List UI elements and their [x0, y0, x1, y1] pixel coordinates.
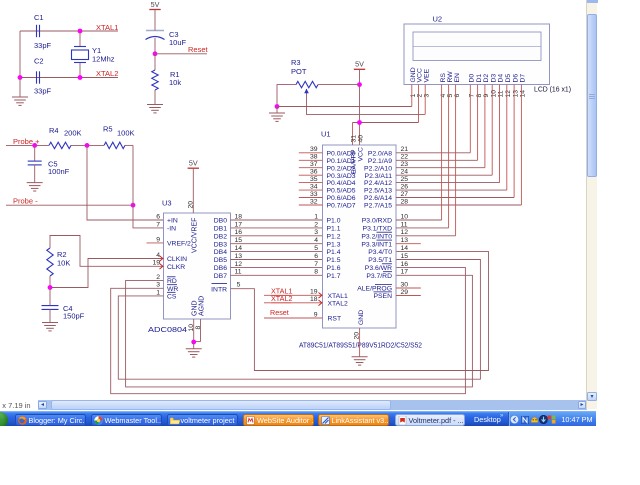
resistor R1	[152, 54, 182, 105]
capacitor C4 150pF	[42, 288, 85, 323]
wire LCD D5 riser	[506, 85, 508, 191]
net label XTAL2 at U1	[271, 294, 292, 303]
svg-text:Reset: Reset	[270, 308, 289, 317]
svg-text:DB6: DB6	[214, 265, 227, 272]
pin PSEN U1 pin 29	[373, 289, 420, 300]
pin RW U2 pin 5	[447, 71, 454, 98]
svg-text:R5: R5	[103, 125, 113, 134]
svg-text:29: 29	[401, 289, 409, 296]
svg-text:DB2: DB2	[214, 233, 227, 240]
svg-text:P3.6/WR: P3.6/WR	[365, 265, 392, 272]
wire LCD D4 riser	[499, 85, 501, 183]
svg-text:8: 8	[476, 94, 483, 98]
svg-text:P1.7: P1.7	[327, 273, 341, 280]
node +IN tap junction	[85, 143, 90, 148]
svg-text:XTAL2: XTAL2	[96, 69, 118, 78]
svg-text:12Mhz: 12Mhz	[92, 55, 115, 64]
svg-text:CLKIN: CLKIN	[167, 256, 187, 263]
system tray	[508, 412, 596, 428]
capacitor C5 100nF	[28, 145, 70, 182]
svg-text:AGND: AGND	[198, 296, 205, 316]
svg-text:10k: 10k	[169, 78, 181, 87]
svg-text:5V: 5V	[189, 159, 198, 168]
svg-text:P1.2: P1.2	[327, 233, 341, 240]
svg-text:30: 30	[401, 281, 409, 288]
wire pot right to 5V	[318, 84, 360, 86]
pin P0.1/AD1 U1 pin 38	[299, 154, 356, 165]
taskbar button voltmeter project	[167, 414, 239, 426]
svg-text:6: 6	[314, 253, 318, 260]
wire RD to P3.7 loop	[126, 275, 473, 387]
node Probe- junction	[131, 203, 136, 208]
svg-text:27: 27	[401, 191, 409, 198]
vertical scrollbar	[586, 0, 597, 409]
pin P0.7/AD7 U1 pin 32	[299, 198, 356, 209]
svg-text:P2.0/A8: P2.0/A8	[368, 150, 392, 157]
svg-text:15: 15	[235, 237, 243, 244]
svg-text:P0.6/AD6: P0.6/AD6	[327, 195, 356, 202]
svg-text:-IN: -IN	[167, 226, 176, 233]
pin P3.7/RD U1 pin 17	[366, 269, 408, 280]
resistor R4 200K	[49, 126, 82, 149]
svg-text:3: 3	[423, 94, 430, 98]
pin P3.4/T0 U1 pin 14	[368, 245, 408, 256]
wire Probe+ horizontal	[6, 144, 133, 146]
svg-text:XTAL1: XTAL1	[96, 23, 118, 32]
pin P1.7 U1	[327, 273, 341, 280]
svg-text:3: 3	[156, 282, 160, 289]
svg-text:2: 2	[156, 274, 160, 281]
capacitor C1	[34, 13, 52, 50]
wire LCD D6 riser	[513, 85, 515, 198]
pin DB7 U3 pin 11	[214, 269, 242, 280]
svg-text:EA/VPP: EA/VPP	[351, 149, 358, 174]
net label Probe -	[13, 197, 38, 206]
wire XTAL2 net horizontal	[20, 77, 118, 79]
svg-text:P3.5/T1: P3.5/T1	[368, 257, 392, 264]
power 5V for reset circuit	[149, 0, 160, 29]
taskbar clock	[559, 415, 595, 424]
net label Probe +	[13, 137, 40, 146]
svg-text:R3: R3	[291, 58, 301, 67]
pin P1.0 U1	[327, 218, 341, 225]
wire LCD GND riser	[411, 85, 413, 107]
wire DB6 to P1.6	[231, 266, 323, 268]
pin D2 U2 pin 9	[483, 74, 490, 98]
wire P3.3 stub	[396, 243, 421, 245]
pin P2.2/A10 U1 pin 23	[364, 161, 408, 172]
svg-text:21: 21	[401, 146, 409, 153]
potentiometer R3 POT	[291, 58, 318, 94]
pin P0.0/AD0 U1 pin 39	[299, 146, 356, 157]
pin P0.2/AD2 U1 pin 37	[299, 161, 356, 172]
svg-text:D6: D6	[512, 74, 519, 83]
ground for crystal caps	[12, 78, 28, 106]
wire P2.4 to LCD D4	[396, 182, 500, 184]
svg-text:5: 5	[237, 282, 241, 289]
svg-text:XTAL1: XTAL1	[328, 293, 348, 300]
svg-text:12: 12	[235, 261, 243, 268]
wire Probe- horizontal	[6, 204, 133, 206]
svg-text:33: 33	[310, 191, 318, 198]
pin DB0 U3 pin 18	[214, 213, 243, 224]
pin -IN U3 pin 7	[156, 221, 176, 232]
svg-text:18: 18	[310, 296, 318, 303]
pin +IN U3 pin 6	[156, 213, 178, 224]
pin P3.0/RXD U1 pin 10	[362, 213, 409, 224]
op-amp U3 ADC0804 body	[148, 199, 231, 335]
pin P0.5/AD5 U1 pin 34	[299, 184, 356, 195]
svg-text:VCC: VCC	[358, 147, 365, 161]
wire Reset net	[155, 53, 207, 55]
node 5V pot junction	[357, 82, 362, 87]
svg-text:3: 3	[314, 229, 318, 236]
svg-text:37: 37	[310, 161, 318, 168]
pin P1.3 U1	[327, 241, 341, 248]
pin XTAL2 U1 pin 18	[264, 296, 348, 307]
wire P2.5 to LCD D5	[396, 189, 507, 191]
pin numbers 10 and 8 ADC ground	[188, 324, 202, 332]
pin P1.6 U1	[327, 265, 341, 272]
node RC junction	[48, 276, 53, 290]
svg-text:11: 11	[401, 221, 408, 228]
svg-text:D5: D5	[505, 74, 512, 83]
svg-text:32: 32	[310, 198, 318, 205]
svg-text:200K: 200K	[64, 129, 82, 138]
node ADC ground junction	[191, 340, 196, 345]
desktop toolbar	[474, 415, 501, 424]
taskbar button LinkAssistant	[318, 414, 389, 426]
wire pot wiper to VEE	[307, 94, 426, 115]
wire P2.7 to LCD D7	[396, 204, 521, 206]
svg-text:P0.5/AD5: P0.5/AD5	[327, 188, 356, 195]
pin P2.7/A15 U1 pin 28	[364, 198, 408, 209]
pin WR U3 pin 3	[156, 282, 178, 293]
svg-text:P1.0: P1.0	[327, 218, 341, 225]
svg-text:10K: 10K	[57, 259, 70, 268]
pin DB6 U3 pin 12	[214, 261, 243, 272]
pin D1 U2 pin 8	[476, 74, 483, 98]
wire P2.1 to LCD D1	[396, 159, 478, 161]
svg-text:26: 26	[401, 184, 409, 191]
pin number 4 U1 P1.3	[314, 237, 318, 244]
svg-text:DB1: DB1	[214, 226, 227, 233]
pin GND U1 pin 20	[354, 310, 365, 357]
horizontal scrollbar	[38, 400, 587, 410]
svg-text:U1: U1	[321, 130, 331, 139]
pin number 6 U1 P1.5	[314, 253, 318, 260]
svg-text:U3: U3	[162, 199, 172, 208]
svg-text:C1: C1	[34, 13, 44, 22]
wire P2.6 to LCD D6	[396, 197, 514, 199]
wire WR to P3.6 loop	[111, 267, 466, 393]
pin P3.1/TXD U1 pin 11	[363, 221, 408, 232]
svg-text:VREF/2: VREF/2	[167, 241, 191, 248]
svg-text:7: 7	[156, 221, 160, 228]
svg-text:P1.4: P1.4	[327, 249, 341, 256]
pin number 7 U1 P1.6	[314, 261, 318, 268]
svg-text:C2: C2	[34, 57, 44, 66]
pin P3.6/WR U1 pin 16	[365, 261, 408, 272]
node XTAL2 junctions	[18, 75, 83, 80]
wire pot left to ground	[277, 85, 296, 107]
net label XTAL1 at U1	[271, 287, 292, 296]
svg-text:D7: D7	[520, 74, 527, 83]
svg-text:P0.7/AD7: P0.7/AD7	[327, 203, 356, 210]
wire DB7 to P1.7	[231, 274, 323, 276]
svg-text:40: 40	[357, 135, 364, 143]
wire XTAL1 net horizontal	[20, 30, 118, 32]
svg-text:P2.3/A11: P2.3/A11	[365, 173, 393, 180]
pin P0.6/AD6 U1 pin 33	[299, 191, 356, 202]
wire DB3 to P1.3	[231, 243, 323, 245]
net label XTAL2	[96, 69, 118, 78]
svg-text:WR: WR	[167, 286, 178, 293]
wire CLKIN to RC junction	[50, 259, 164, 288]
svg-text:38: 38	[310, 154, 318, 161]
pin RS U2 pin 4	[440, 73, 447, 98]
svg-text:R4: R4	[49, 126, 59, 135]
net label XTAL1	[96, 23, 118, 32]
svg-text:22: 22	[401, 154, 409, 161]
node VCC junction	[357, 120, 362, 125]
pin P2.5/A13 U1 pin 26	[364, 184, 408, 195]
wire LCD D2 riser	[484, 85, 486, 168]
pin number 8 U1 P1.7	[314, 269, 318, 276]
pin VCC U1 pin 40	[357, 123, 364, 162]
pin P1.2 U1	[327, 233, 341, 240]
svg-text:10: 10	[490, 90, 497, 98]
svg-text:24: 24	[401, 169, 409, 176]
svg-text:8: 8	[195, 326, 202, 330]
svg-text:39: 39	[310, 146, 318, 153]
pin INTR U3 pin 5	[211, 282, 240, 294]
svg-text:8: 8	[314, 269, 318, 276]
svg-text:P3.3/INT1: P3.3/INT1	[361, 241, 392, 248]
svg-text:1: 1	[314, 213, 318, 220]
svg-text:33pF: 33pF	[34, 41, 52, 50]
wire P3.0 to LCD RS	[396, 219, 442, 221]
svg-text:D1: D1	[476, 74, 483, 83]
svg-text:ADC0804: ADC0804	[148, 325, 187, 334]
wire P2.3 to LCD D3	[396, 174, 492, 176]
svg-text:4: 4	[156, 252, 160, 259]
wire DB2 to P1.2	[231, 235, 323, 237]
crystal Y1	[72, 31, 115, 78]
svg-text:P1.1: P1.1	[327, 226, 341, 233]
svg-text:18: 18	[235, 213, 243, 220]
wire LCD GND net	[277, 106, 412, 108]
power 5V for U1	[354, 60, 365, 123]
node reset junction	[153, 51, 158, 56]
pin XTAL1 U1 pin 19	[264, 289, 348, 300]
pin P3.3/INT1 U1 pin 13	[361, 237, 408, 248]
svg-text:DB7: DB7	[214, 273, 227, 280]
svg-text:16: 16	[401, 261, 409, 268]
svg-text:D0: D0	[469, 74, 476, 83]
svg-text:PSEN: PSEN	[373, 293, 392, 300]
svg-text:150pF: 150pF	[63, 312, 85, 321]
svg-text:+IN: +IN	[167, 218, 178, 225]
microcontroller U1 body	[299, 130, 422, 350]
pin P1.5 U1	[327, 257, 341, 264]
pin CLKR U3 pin 19	[152, 260, 185, 271]
svg-text:10: 10	[188, 324, 195, 332]
pin P2.6/A14 U1 pin 27	[364, 191, 408, 202]
svg-text:31: 31	[350, 135, 357, 143]
svg-text:RD: RD	[167, 278, 177, 285]
svg-text:33pF: 33pF	[34, 87, 52, 96]
pin GND U2 pin 1	[410, 67, 417, 97]
wire INTR to P3.4 loop	[231, 252, 489, 371]
svg-text:P1.3: P1.3	[327, 241, 341, 248]
svg-text:13: 13	[512, 90, 519, 98]
wire DB5 to P1.5	[231, 259, 323, 261]
pin D4 U2 pin 11	[498, 74, 505, 98]
svg-text:14: 14	[401, 245, 409, 252]
svg-text:10uF: 10uF	[169, 38, 187, 47]
pin number 5 U1 P1.4	[314, 245, 318, 252]
wire LCD D1 riser	[477, 85, 479, 161]
svg-text:P2.5/A13: P2.5/A13	[364, 188, 392, 195]
pin RD U3 pin 2	[156, 274, 177, 285]
svg-text:P1.5: P1.5	[327, 257, 341, 264]
pin VCC U2 pin 2	[417, 68, 424, 97]
svg-text:AT89C51/AT89S51/P89V51RD2/C52/: AT89C51/AT89S51/P89V51RD2/C52/S52	[299, 341, 422, 350]
pin P2.1/A9 U1 pin 22	[368, 154, 408, 165]
svg-text:11: 11	[235, 269, 242, 276]
svg-text:12: 12	[505, 90, 512, 98]
pin P0.3/AD3 U1 pin 36	[299, 169, 356, 180]
pin RST U1 pin 9	[264, 311, 341, 322]
pin D0 U2 pin 7	[469, 74, 476, 98]
svg-text:5V: 5V	[355, 60, 364, 69]
pin VREF/2 stub wire	[147, 242, 164, 244]
pin EA/VPP U1 pin 31	[350, 123, 357, 175]
pin DB1 U3 pin 17	[214, 221, 243, 232]
svg-text:P1.6: P1.6	[327, 265, 341, 272]
svg-text:P2.7/A15: P2.7/A15	[364, 203, 392, 210]
svg-text:XTAL2: XTAL2	[328, 300, 348, 307]
taskbar button Blogger	[15, 414, 86, 426]
pin D6 U2 pin 13	[512, 74, 519, 98]
pin CLKIN U3 pin 4	[156, 252, 187, 263]
svg-text:POT: POT	[291, 67, 307, 76]
svg-text:12: 12	[401, 229, 409, 236]
wire VCC net at U1 top	[353, 122, 419, 124]
wire ADC ground pins	[194, 319, 201, 342]
svg-text:P3.2/INT0: P3.2/INT0	[361, 233, 392, 240]
ground for U1	[352, 357, 368, 365]
svg-text:P2.2/A10: P2.2/A10	[364, 165, 392, 172]
ground for R1	[147, 105, 163, 113]
svg-text:DB3: DB3	[214, 241, 227, 248]
svg-text:EN: EN	[454, 73, 461, 83]
svg-text:P2.1/A9: P2.1/A9	[368, 158, 392, 165]
svg-text:Probe -: Probe -	[13, 197, 38, 206]
LCD module U2 body	[404, 15, 571, 94]
svg-text:100nF: 100nF	[48, 167, 70, 176]
resistor R5 100K	[103, 125, 135, 149]
pin P2.0/A8 U1 pin 21	[368, 146, 408, 157]
svg-text:RST: RST	[328, 316, 342, 323]
svg-text:P3.1/TXD: P3.1/TXD	[363, 226, 393, 233]
svg-text:5V: 5V	[151, 0, 160, 9]
ground for ADC	[186, 342, 202, 357]
taskbar button Voltmeter.pdf active	[395, 414, 465, 426]
svg-text:7: 7	[314, 261, 318, 268]
svg-text:11: 11	[498, 90, 505, 97]
wire CLKR to R2 top	[50, 236, 164, 267]
svg-text:4: 4	[314, 237, 318, 244]
pin DB5 U3 pin 13	[214, 253, 243, 264]
svg-text:D4: D4	[498, 74, 505, 83]
wire DB0 to P1.0	[231, 219, 323, 221]
ground for pot	[269, 107, 285, 122]
svg-text:6: 6	[156, 213, 160, 220]
wire DB1 to P1.1	[231, 227, 323, 229]
wire -IN connection	[133, 145, 164, 228]
pin D5 U2 pin 12	[505, 74, 512, 98]
wire LCD D0 riser	[469, 85, 471, 153]
svg-text:P2.6/A14: P2.6/A14	[364, 195, 392, 202]
wire LCD VCC riser	[418, 85, 420, 123]
svg-text:15: 15	[401, 253, 409, 260]
pin EN U2 pin 6	[454, 73, 461, 98]
svg-text:5: 5	[447, 94, 454, 98]
ground for C5	[27, 183, 43, 191]
pin number 2 U1 P1.1	[314, 221, 318, 228]
svg-text:20: 20	[187, 201, 194, 209]
taskbar button Webmaster Tools	[91, 414, 162, 426]
start button edge	[0, 412, 8, 428]
wire P2.0 to LCD D0	[396, 152, 470, 154]
svg-text:RS: RS	[440, 73, 447, 83]
svg-text:6: 6	[454, 94, 461, 98]
pin D7 U2 pin 14	[520, 74, 527, 98]
svg-text:CS: CS	[167, 294, 177, 301]
pin number 3 U1 P1.2	[314, 229, 318, 236]
wire DB4 to P1.4	[231, 251, 323, 253]
wire LCD EN riser	[455, 85, 457, 236]
wire CS to P3.5 loop	[118, 260, 480, 380]
svg-text:9: 9	[156, 236, 160, 243]
pin DB4 U3 pin 14	[214, 245, 243, 256]
wire +IN connection	[87, 145, 164, 220]
svg-text:2: 2	[314, 221, 318, 228]
svg-text:Reset: Reset	[188, 45, 209, 54]
svg-text:4: 4	[440, 94, 447, 98]
svg-text:14: 14	[520, 90, 527, 98]
status bar page size text	[0, 401, 56, 411]
capacitor C3 polarized	[146, 29, 187, 54]
svg-text:19: 19	[152, 260, 160, 267]
svg-text:DB4: DB4	[214, 249, 227, 256]
power 5V for ADC VCC pin 20	[187, 159, 199, 213]
svg-text:20: 20	[354, 332, 361, 340]
clock chevrons CLKIN CLKR	[160, 256, 163, 269]
svg-text:13: 13	[401, 237, 409, 244]
wire LCD D3 riser	[491, 85, 493, 176]
node C5 tap junction	[32, 143, 37, 148]
svg-text:VCC/VREF: VCC/VREF	[191, 218, 198, 253]
pin P2.4/A12 U1 pin 25	[364, 176, 408, 187]
wire P3.2 to LCD EN	[396, 235, 456, 237]
svg-text:9: 9	[314, 311, 318, 318]
svg-text:DB5: DB5	[214, 257, 227, 264]
pin P1.1 U1	[327, 226, 341, 233]
wire LCD VEE riser	[424, 85, 426, 115]
